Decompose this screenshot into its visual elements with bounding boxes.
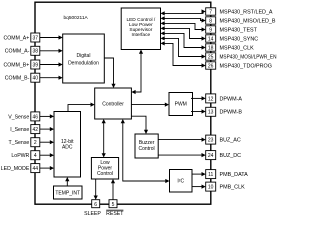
wire Controller to Low Power Control xyxy=(102,119,106,158)
wire pin 44 to ADC xyxy=(40,166,54,170)
svg-text:9: 9 xyxy=(209,27,212,33)
svg-text:bq500211A: bq500211A xyxy=(64,15,89,21)
svg-text:TEMP_INT: TEMP_INT xyxy=(55,191,80,197)
svg-text:Demodulation: Demodulation xyxy=(68,61,99,67)
svg-text:PWM: PWM xyxy=(175,102,187,108)
svg-text:BUZ_AC: BUZ_AC xyxy=(220,138,241,144)
block TEMP_INT xyxy=(54,186,83,199)
svg-text:MSP430_TDO/PROG: MSP430_TDO/PROG xyxy=(220,63,272,69)
pin 40 COMM_B- xyxy=(5,73,40,82)
svg-text:DPWM-A: DPWM-A xyxy=(220,96,243,102)
svg-text:LoPWR: LoPWR xyxy=(11,153,29,159)
wire LED Control to Controller xyxy=(131,50,143,95)
block Digital Demodulation xyxy=(63,34,105,83)
pin 39 COMM_B+ xyxy=(3,60,39,69)
svg-text:I²C: I²C xyxy=(177,179,184,185)
svg-text:MSP430_MISO/LED_B: MSP430_MISO/LED_B xyxy=(220,18,276,24)
pin 8 MSP430_MISO/LED_B xyxy=(206,17,276,25)
block PWM xyxy=(169,93,193,116)
wire TEMP_INT to ADC xyxy=(65,177,69,186)
svg-text:DPWM-B: DPWM-B xyxy=(220,110,243,116)
pin 37 COMM_A+ xyxy=(3,33,39,42)
pin 5 RESET xyxy=(106,200,124,217)
pin 18 MSP430_CLK xyxy=(206,44,254,52)
pin 23 BUZ_AC xyxy=(206,135,241,144)
svg-text:18: 18 xyxy=(208,45,214,51)
svg-text:MSP430_CLK: MSP430_CLK xyxy=(220,45,255,51)
wire pin 46 to ADC xyxy=(40,114,54,118)
svg-text:2: 2 xyxy=(34,140,37,146)
wire LED Control to pin 14 xyxy=(161,26,206,40)
wire pin 2 to ADC xyxy=(40,140,54,144)
svg-text:BUZ_DC: BUZ_DC xyxy=(220,153,242,159)
svg-text:14: 14 xyxy=(208,36,214,42)
wire LED Control to pin 18 xyxy=(161,31,206,49)
pin 4 LoPWR xyxy=(11,151,39,160)
svg-text:RESET: RESET xyxy=(106,211,124,217)
svg-text:COMM_B+: COMM_B+ xyxy=(3,62,29,68)
svg-text:MSP430_TEST: MSP430_TEST xyxy=(220,27,258,33)
wire Low Power Control to pin 6 xyxy=(94,179,98,200)
svg-text:10: 10 xyxy=(208,185,214,191)
wire LED Control to pin 9 xyxy=(161,21,206,31)
wire pin 37 to Digital Demodulation xyxy=(40,35,63,39)
svg-text:SLEEP: SLEEP xyxy=(84,211,101,217)
wire I2C to pin 10 xyxy=(192,185,206,189)
wire LED Control to pin 26 xyxy=(161,41,206,67)
svg-text:Digital: Digital xyxy=(77,53,91,59)
pin 44 LED_MODE xyxy=(1,164,40,173)
block 12-bit ADC xyxy=(54,112,81,178)
svg-text:42: 42 xyxy=(33,127,39,133)
pin 38 COMM_A- xyxy=(5,46,40,55)
svg-text:23: 23 xyxy=(208,138,214,144)
pin 24 BUZ_DC xyxy=(206,151,241,160)
svg-text:8: 8 xyxy=(209,18,212,24)
pin 14 MSP430_SYNC xyxy=(206,35,259,43)
svg-text:Control: Control xyxy=(97,171,113,177)
pin 42 I_Sense xyxy=(10,125,40,134)
svg-text:11: 11 xyxy=(208,172,213,178)
svg-text:I_Sense: I_Sense xyxy=(10,127,29,133)
wire LED Control to pin 7 xyxy=(161,9,206,15)
svg-text:MSP430_RST/LED_A: MSP430_RST/LED_A xyxy=(220,9,273,15)
wire ADC to Controller xyxy=(68,103,95,112)
pin 9 MSP430_TEST xyxy=(206,26,258,34)
pin 26 MSP430_TDO/PROG xyxy=(206,62,272,70)
svg-text:PMB_CLK: PMB_CLK xyxy=(220,185,246,191)
wire Digital Demodulation to Controller xyxy=(104,58,115,88)
wire LED Control to pin 25 xyxy=(161,36,206,58)
pin 11 PMB_DATA xyxy=(206,170,248,179)
svg-text:13: 13 xyxy=(208,110,214,116)
svg-text:COMM_B-: COMM_B- xyxy=(5,76,30,82)
pin 6 SLEEP xyxy=(84,200,101,217)
chip outline bq500211A xyxy=(35,2,211,204)
svg-text:Interface: Interface xyxy=(132,32,151,38)
wire pin 38 to Digital Demodulation xyxy=(40,49,63,53)
svg-text:6: 6 xyxy=(94,202,97,208)
svg-text:Controller: Controller xyxy=(102,101,124,107)
svg-text:V_Sense: V_Sense xyxy=(8,114,29,120)
wire Controller to Buzzer Control xyxy=(131,116,148,134)
block Controller xyxy=(95,88,132,119)
wire LED Control to pin 8 xyxy=(161,16,206,22)
svg-text:MSP430_SYNC: MSP430_SYNC xyxy=(220,36,259,42)
pin 12 DPWM-A xyxy=(206,94,243,103)
wire pin 39 to Digital Demodulation xyxy=(40,62,63,66)
block Buzzer Control xyxy=(135,134,158,158)
svg-text:38: 38 xyxy=(33,49,39,55)
svg-text:COMM_A+: COMM_A+ xyxy=(3,35,29,41)
block LED Control / Low Power Supervisor Interface xyxy=(121,8,160,50)
wire pin 5 to Low Power Control xyxy=(111,179,115,200)
svg-text:ADC: ADC xyxy=(62,145,73,151)
svg-text:T_Sense: T_Sense xyxy=(9,140,30,146)
wire Controller to I2C xyxy=(121,119,170,183)
svg-text:COMM_A-: COMM_A- xyxy=(5,49,30,55)
wire Buzzer Control to pin 23 xyxy=(158,138,206,142)
wire PWM to pin 13 xyxy=(191,109,206,113)
wire pin 42 to ADC xyxy=(40,127,54,131)
svg-text:5: 5 xyxy=(112,202,115,208)
svg-text:40: 40 xyxy=(33,76,39,82)
svg-text:PMB_DATA: PMB_DATA xyxy=(220,172,249,178)
wire Controller to PWM xyxy=(131,103,169,107)
wire pin 40 to Digital Demodulation xyxy=(40,76,63,80)
svg-text:4: 4 xyxy=(34,153,37,159)
pin 2 T_Sense xyxy=(9,138,40,147)
wire I2C to pin 11 xyxy=(192,172,206,176)
pin 10 PMB_CLK xyxy=(206,182,245,191)
block Low Power Control xyxy=(91,158,118,180)
pin 7 MSP430_RST/LED_A xyxy=(206,8,273,16)
svg-text:LED_MODE: LED_MODE xyxy=(1,166,30,172)
svg-text:MSP430_MOSI/LPWR_EN: MSP430_MOSI/LPWR_EN xyxy=(220,54,277,60)
wire PWM to pin 12 xyxy=(191,96,206,100)
svg-text:Control: Control xyxy=(139,146,155,152)
pin 13 DPWM-B xyxy=(206,107,243,116)
svg-text:26: 26 xyxy=(208,63,214,69)
block I2C xyxy=(170,170,193,193)
svg-text:37: 37 xyxy=(33,35,39,41)
wire pin 4 to ADC xyxy=(40,153,54,157)
svg-text:25: 25 xyxy=(208,54,214,60)
svg-text:46: 46 xyxy=(33,114,39,120)
pin 25 MSP430_MOSI/LPWR_EN xyxy=(206,53,277,61)
svg-text:7: 7 xyxy=(209,9,212,15)
svg-text:39: 39 xyxy=(33,62,39,68)
svg-text:44: 44 xyxy=(33,166,39,172)
svg-text:24: 24 xyxy=(208,153,214,159)
wire Buzzer Control to pin 24 xyxy=(158,153,206,157)
svg-text:12: 12 xyxy=(208,96,214,102)
pin 46 V_Sense xyxy=(8,112,40,121)
